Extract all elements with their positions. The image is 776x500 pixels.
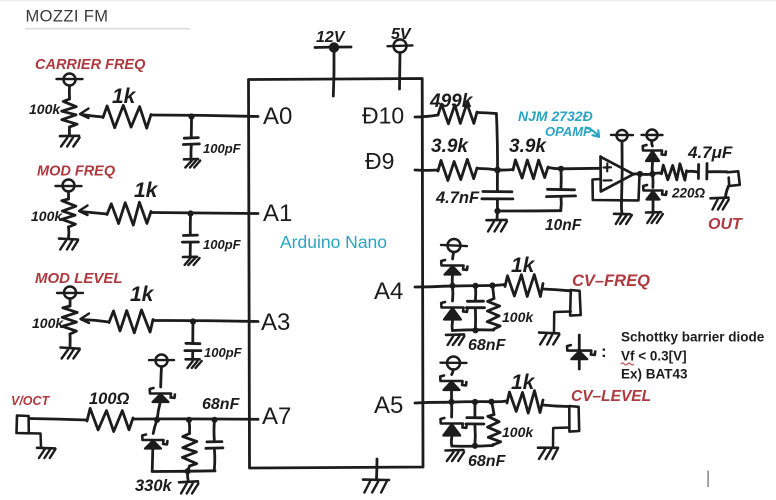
title underline	[25, 28, 190, 30]
wire cap to out jack	[707, 170, 727, 173]
resistor 220ohm	[662, 164, 687, 181]
wire node to D4	[651, 174, 654, 188]
resistor 3.9k second	[513, 160, 548, 179]
wire box ground tick	[375, 459, 378, 479]
wire A4 row	[445, 284, 493, 288]
ground box bottom	[363, 478, 389, 481]
wire voct D1 to node	[157, 402, 160, 419]
wire 5V into box	[398, 53, 401, 90]
svg-text:A4: A4	[374, 278, 403, 305]
node filter bottom	[494, 208, 500, 214]
svg-text:OUT: OUT	[708, 216, 743, 233]
wire output to clamp node	[640, 173, 653, 176]
wire a4 D6 to rail	[451, 321, 454, 331]
wire a4 1k to jack	[543, 289, 570, 291]
wire outclamp 5V lead	[650, 141, 654, 147]
svg-text:A7: A7	[262, 403, 291, 430]
capacitor 100pF carrier	[184, 136, 198, 139]
wire 330k bottom lead	[188, 466, 189, 471]
potentiometer 100k modfreq	[63, 180, 75, 192]
wire a4 cap top lead	[474, 286, 477, 301]
wire V/OCT jack to R	[29, 419, 87, 421]
node voct n1	[154, 417, 160, 423]
capacitor 10nF	[548, 188, 575, 191]
jack CV_LEVEL	[569, 406, 579, 432]
wire V/OCT jack gnd stub	[29, 433, 41, 446]
svg-text:Schottky barrier diode: Schottky barrier diode	[621, 330, 765, 345]
jack V/OCT input	[17, 416, 29, 434]
resistor 100k a5	[488, 415, 501, 445]
wire modlevel to A3	[153, 320, 258, 321]
svg-text:220Ω: 220Ω	[671, 186, 706, 201]
svg-text:4.7μF: 4.7μF	[687, 143, 733, 162]
wire modfreq to A1	[151, 213, 258, 214]
wire 4.7nF top lead	[496, 170, 499, 191]
wire a4 1k lead	[493, 285, 506, 286]
ground a5	[446, 449, 464, 452]
wire voct row	[133, 417, 258, 420]
wire 220 to cap	[687, 170, 698, 173]
svg-text:V/OCT: V/OCT	[11, 394, 51, 408]
node opamp output	[637, 171, 643, 177]
wire a4 bottom rail	[452, 328, 493, 332]
svg-text:A3: A3	[261, 309, 290, 336]
text cursor	[707, 471, 709, 488]
svg-text:100k: 100k	[32, 315, 64, 331]
wire voct D2 to rail	[151, 449, 154, 472]
wire a5 cap top lead	[473, 402, 476, 417]
diode D4 out clamp lower	[643, 185, 666, 195]
svg-text:4.7nF: 4.7nF	[435, 189, 480, 207]
wire voct bottom rail	[152, 469, 215, 473]
wire a4 node to D6	[451, 286, 454, 301]
svg-text:100pF: 100pF	[203, 237, 242, 252]
svg-text:1k: 1k	[511, 371, 536, 394]
node modfreq junction	[187, 210, 193, 216]
wire a4 cap bottom lead	[474, 309, 477, 331]
svg-text:MOD LEVEL: MOD LEVEL	[35, 270, 123, 287]
wire voct node to D2	[153, 420, 157, 434]
wire A5 row	[445, 400, 492, 403]
svg-text:1k: 1k	[134, 179, 159, 202]
svg-text:100Ω: 100Ω	[89, 390, 130, 408]
ground cvlevel jack	[538, 446, 558, 449]
svg-text:CARRIER FREQ: CARRIER FREQ	[35, 57, 146, 73]
ground opamp	[614, 213, 630, 216]
wire a5 D8 to rail	[450, 437, 453, 446]
wire opamp vcc	[620, 141, 624, 202]
svg-text:100pF: 100pF	[204, 345, 243, 360]
wire modlevel cap lead	[191, 322, 194, 344]
ground filter	[487, 219, 507, 222]
jack OUT	[727, 171, 740, 186]
resistor 100k a4	[487, 299, 500, 330]
wire D9 lead	[415, 169, 438, 172]
wire modlevel cap gnd lead	[191, 351, 194, 359]
svg-text:68nF: 68nF	[468, 337, 507, 354]
svg-text:499k: 499k	[429, 91, 474, 112]
svg-text:CV–LEVEL: CV–LEVEL	[571, 388, 651, 405]
jack CV_FREQ	[570, 290, 581, 316]
diode D3 out clamp upper	[643, 145, 666, 155]
resistor 1k a4	[505, 275, 543, 297]
supply 5V a4 clamp	[448, 239, 461, 252]
wire carrier cap gnd lead	[190, 146, 193, 159]
node a5 n3	[488, 399, 494, 405]
node voct n3	[211, 417, 217, 423]
wire node to 220	[653, 172, 662, 176]
IC U1 Arduino Nano box	[249, 79, 424, 469]
wire 12V rail	[315, 46, 351, 49]
wire modfreq cap gnd lead	[189, 243, 192, 256]
wire a5 1k lead	[492, 400, 508, 404]
wire a5 D7 to node	[450, 391, 453, 403]
svg-text:Đ10: Đ10	[362, 103, 404, 129]
op-amp plus sign	[604, 164, 612, 172]
svg-text:Đ9: Đ9	[365, 148, 394, 174]
svg-text:1k: 1k	[511, 254, 536, 277]
capacitor 68nF voct	[207, 440, 222, 443]
ground a4	[446, 333, 464, 336]
wire a5 100k top lead	[492, 402, 495, 415]
potentiometer 100k carrier	[64, 74, 76, 86]
page top border	[0, 0, 776, 2]
note diode symbol	[567, 345, 595, 355]
wire cvfreq jack gnd stub	[554, 312, 571, 332]
svg-text:Arduino Nano: Arduino Nano	[280, 232, 387, 252]
diode D5 a4 clamp upper	[441, 260, 467, 270]
wire D4 to gnd	[652, 201, 655, 212]
wire opamp output	[634, 172, 641, 175]
ground modfreq cap	[183, 255, 197, 258]
resistor 3.9k first	[438, 159, 477, 180]
wire out jack gnd stub	[726, 186, 729, 197]
node a4 bottom	[472, 327, 478, 333]
diode D7 a5 clamp upper	[440, 376, 466, 386]
cyan arrow	[586, 128, 599, 138]
wire 330k top lead	[188, 420, 191, 434]
node voct bottom	[185, 468, 191, 474]
svg-text:10nF: 10nF	[545, 217, 582, 234]
wire a5 node to D8	[450, 402, 453, 417]
capacitor 100pF modfreq	[183, 234, 197, 237]
resistor 1k carrier	[103, 105, 151, 128]
note diode wire	[578, 335, 581, 369]
svg-text:NJM 2732Đ: NJM 2732Đ	[518, 108, 593, 124]
node a4 n1	[449, 283, 455, 289]
ground V/OCT jack	[37, 446, 55, 449]
node a5 n2	[472, 399, 478, 405]
wire a4 5V to D5	[453, 252, 454, 259]
ground OUT jack	[711, 196, 729, 199]
wire carrier cap lead	[190, 117, 193, 138]
node a5 bottom	[472, 443, 478, 449]
svg-text:Ex) BAT43: Ex) BAT43	[621, 367, 688, 382]
wire 4.7nF bottom lead	[496, 200, 499, 212]
wire 3.9k2 to junction2	[548, 168, 561, 169]
svg-text:68nF: 68nF	[202, 396, 241, 413]
wire a5 cap bottom lead	[473, 425, 476, 446]
wire opamp feedback	[593, 175, 640, 201]
node filter junction 1	[494, 167, 501, 174]
wire 10nF top lead	[560, 169, 563, 189]
ground out clamp	[646, 211, 661, 214]
ground cvfreq jack	[539, 331, 559, 334]
ground voct bottom	[179, 481, 198, 482]
node carrier junction	[188, 113, 194, 119]
supply 5V voct clamp	[156, 355, 168, 367]
svg-text:MOZZI FM: MOZZI FM	[26, 8, 109, 26]
wire modfreq cap lead	[189, 214, 192, 236]
wire a4 100k top lead	[493, 286, 495, 299]
wire voct cap bottom lead	[213, 449, 216, 471]
supply 5V symbol	[394, 40, 407, 53]
node filter junction 2	[558, 166, 564, 172]
svg-text:A5: A5	[374, 392, 403, 419]
resistor 330k	[182, 434, 197, 467]
capacitor 68nF a5	[467, 416, 483, 419]
svg-text:A1: A1	[263, 200, 292, 227]
svg-text::: :	[601, 342, 607, 361]
wire a5 5V to D7	[452, 370, 454, 375]
svg-text:3.9k: 3.9k	[509, 136, 547, 157]
node a4 n3	[489, 282, 495, 288]
wire voct 5V to D1	[159, 367, 163, 388]
wire 3.9k1 to junction	[477, 168, 498, 170]
ground carrier cap	[184, 158, 198, 161]
wire a4 D5 to node	[451, 275, 454, 286]
wire junction to 3.9k2	[498, 168, 514, 171]
node voct n2	[186, 417, 192, 423]
wire cvlevel jack gnd stub	[553, 428, 569, 447]
diode D2 voct clamp lower	[142, 435, 167, 445]
resistor 1k modfreq	[107, 202, 151, 225]
svg-text:68nF: 68nF	[468, 453, 507, 470]
wire junction2 to opamp	[561, 167, 600, 170]
diode D1 voct clamp upper	[150, 388, 175, 398]
supply 5V opamp	[617, 130, 628, 141]
node modlevel junction	[190, 318, 196, 324]
op-amp U1 triangle	[601, 157, 634, 192]
svg-text:MOD FREQ: MOD FREQ	[37, 164, 116, 180]
supply 5V out clamp	[647, 130, 658, 141]
resistor 1k a5	[507, 391, 543, 414]
node output clamp	[649, 171, 655, 177]
svg-text:100k: 100k	[502, 309, 534, 325]
wire a5 1k to jack	[543, 405, 569, 407]
wire A5 lead	[415, 401, 445, 405]
wire a5 bottom rail	[452, 444, 493, 448]
node a5 n1	[448, 399, 454, 405]
ground modlevel cap	[186, 358, 200, 361]
resistor 100ohm	[87, 408, 133, 431]
wire voct gnd tick	[186, 471, 189, 481]
node 12V dot	[329, 42, 339, 52]
wire a5 100k bottom lead	[493, 444, 495, 445]
svg-text:OPAMP: OPAMP	[545, 124, 592, 139]
svg-text:CV–FREQ: CV–FREQ	[572, 272, 650, 290]
wire carrier to A0	[151, 115, 258, 117]
wire voct cap top lead	[213, 420, 216, 441]
svg-text:Vf < 0.3[V]: Vf < 0.3[V]	[621, 349, 687, 364]
svg-text:100pF: 100pF	[203, 141, 242, 156]
svg-text:100k: 100k	[31, 208, 63, 224]
wire outclamp D3 to node	[651, 163, 654, 175]
diode D8 a5 clamp lower	[441, 418, 467, 428]
capacitor 68nF a4	[467, 300, 483, 303]
wire a4 100k bottom lead	[492, 329, 495, 330]
wire opamp gnd tick	[620, 202, 623, 213]
wire 10nF to filter bottom	[498, 209, 561, 212]
potentiometer 100k modlevel	[64, 287, 76, 299]
wire 10nF bottom lead	[559, 197, 562, 211]
note Vf underline red	[621, 363, 634, 365]
capacitor 4.7nF	[483, 190, 512, 193]
wire A4 lead	[415, 285, 445, 289]
diode D6 a4 clamp lower	[441, 302, 467, 312]
op-amp minus sign	[604, 179, 612, 181]
capacitor 4.7uF	[697, 165, 700, 179]
node a4 n2	[472, 283, 478, 289]
svg-text:330k: 330k	[135, 477, 173, 495]
capacitor 100pF modlevel	[186, 342, 200, 345]
wire 499k to corner	[477, 113, 496, 114]
wire filter bottom gnd tick	[496, 211, 499, 219]
svg-text:3.9k: 3.9k	[431, 136, 469, 157]
svg-text:100k: 100k	[502, 424, 534, 440]
wire 12V into box	[332, 52, 336, 96]
svg-text:100k: 100k	[29, 101, 61, 117]
wire D10 lead	[415, 115, 438, 117]
svg-text:A0: A0	[263, 103, 292, 130]
resistor 1k modlevel	[109, 310, 153, 333]
wire corner down to junction	[496, 114, 497, 171]
resistor 499k	[438, 103, 477, 123]
svg-text:1k: 1k	[130, 283, 155, 306]
supply 5V a5 clamp	[447, 357, 460, 370]
